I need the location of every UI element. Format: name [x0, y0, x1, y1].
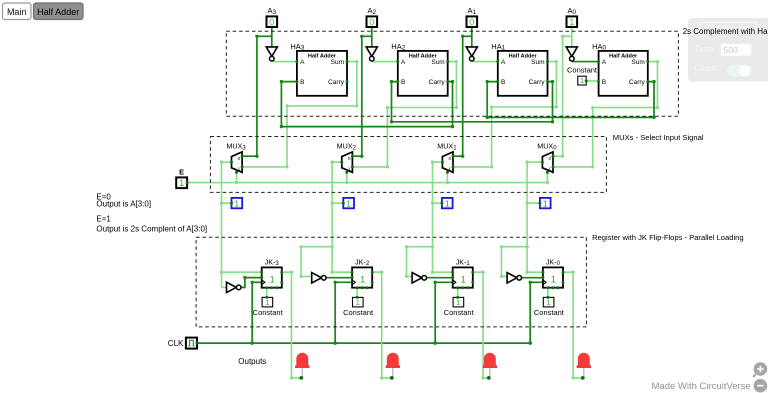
svg-text:MUX3: MUX3 [226, 142, 246, 152]
svg-text:MUX0: MUX0 [537, 142, 557, 152]
svg-text:A: A [401, 59, 406, 66]
svg-text:B: B [602, 79, 606, 86]
svg-text:1: 1 [551, 274, 556, 285]
svg-text:1: 1 [543, 198, 548, 208]
svg-text:Carry: Carry [328, 79, 345, 86]
svg-text:1: 1 [346, 198, 351, 208]
svg-text:MUX2: MUX2 [337, 142, 357, 152]
svg-text:JK-0: JK-0 [546, 257, 561, 267]
svg-text:A: A [300, 59, 305, 66]
svg-text:JK-1: JK-1 [456, 257, 471, 267]
svg-text:Output is A[3:0]: Output is A[3:0] [96, 199, 151, 208]
svg-text:Sum: Sum [331, 59, 344, 66]
svg-text:JK-3: JK-3 [265, 257, 280, 267]
svg-text:B: B [401, 79, 405, 86]
svg-text:Main: Main [7, 7, 27, 17]
svg-text:2s Complement with Half Adders: 2s Complement with Half Adders [683, 27, 768, 36]
svg-text:HA0: HA0 [592, 42, 606, 52]
svg-text:A1: A1 [468, 6, 477, 16]
svg-text:Carry: Carry [529, 79, 546, 86]
svg-text:Time:: Time: [694, 44, 716, 54]
svg-text:MUXs - Select Input Signal: MUXs - Select Input Signal [613, 133, 704, 142]
svg-text:Constant: Constant [253, 308, 284, 317]
svg-text:Constant: Constant [444, 308, 475, 317]
svg-text:1: 1 [456, 298, 460, 307]
svg-text:JK-2: JK-2 [355, 257, 370, 267]
svg-text:A2: A2 [368, 6, 377, 16]
svg-text:Carry: Carry [629, 79, 646, 86]
svg-text:Output is 2s Complent of A[3:0: Output is 2s Complent of A[3:0] [96, 224, 207, 233]
svg-text:B: B [501, 79, 505, 86]
svg-text:Made With CircuitVerse: Made With CircuitVerse [652, 381, 751, 392]
svg-text:E: E [179, 168, 184, 177]
svg-text:B: B [300, 79, 304, 86]
svg-text:A: A [501, 59, 506, 66]
svg-text:Constant: Constant [343, 308, 374, 317]
svg-text:HA3: HA3 [290, 42, 304, 52]
svg-text:1: 1 [265, 298, 269, 307]
svg-text:HA2: HA2 [391, 42, 405, 52]
svg-text:A0: A0 [568, 6, 577, 16]
svg-text:1: 1 [270, 274, 275, 285]
svg-text:Sum: Sum [531, 59, 544, 66]
svg-text:0: 0 [269, 17, 274, 27]
svg-text:500: 500 [724, 45, 738, 55]
svg-text:Constant: Constant [567, 66, 598, 75]
svg-text:CLK: CLK [168, 339, 184, 348]
svg-text:1: 1 [445, 198, 450, 208]
svg-text:0: 0 [369, 17, 374, 27]
svg-text:E=1: E=1 [96, 214, 111, 223]
svg-text:Register with JK Flip-Flops -: Register with JK Flip-Flops - Parallel L… [592, 233, 744, 242]
svg-text:0: 0 [469, 17, 474, 27]
svg-text:Half Adder: Half Adder [37, 7, 79, 17]
svg-text:1: 1 [580, 76, 584, 85]
svg-text:1: 1 [569, 17, 574, 27]
svg-text:A: A [602, 59, 607, 66]
svg-text:Carry: Carry [429, 79, 446, 86]
svg-text:Clock:: Clock: [694, 63, 719, 73]
svg-text:A3: A3 [268, 6, 277, 16]
svg-text:1: 1 [234, 198, 239, 208]
svg-text:MUX1: MUX1 [437, 142, 457, 152]
svg-text:HA1: HA1 [491, 42, 505, 52]
svg-text:1: 1 [179, 178, 184, 188]
svg-text:1: 1 [356, 298, 360, 307]
svg-text:Sum: Sum [431, 59, 444, 66]
svg-text:1: 1 [360, 274, 365, 285]
svg-text:Sum: Sum [631, 59, 644, 66]
svg-text:Constant: Constant [534, 308, 565, 317]
svg-text:1: 1 [461, 274, 466, 285]
svg-text:1: 1 [547, 298, 551, 307]
svg-text:Outputs: Outputs [238, 357, 266, 366]
